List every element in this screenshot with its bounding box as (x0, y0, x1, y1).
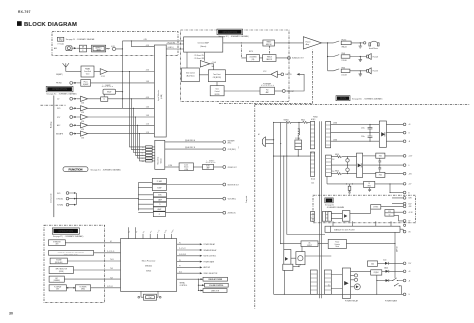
ground (headphone) (359, 43, 363, 48)
mains bus wires (273, 122, 275, 294)
tone direct box (208, 70, 225, 82)
svg-text:L3: L3 (142, 158, 144, 160)
FL driver box (75, 285, 90, 291)
wire composite bus (76, 198, 138, 200)
key box volume (50, 258, 67, 264)
svg-text:F(B)04: F(B)04 (335, 171, 339, 173)
svg-text:OPERATION: OPERATION (58, 230, 73, 233)
svg-text:Phono: Phono (84, 81, 88, 83)
bottom rail (274, 293, 404, 295)
svg-text:Zone2: Zone2 (184, 165, 188, 167)
svg-text:3.3V: 3.3V (388, 211, 391, 213)
processor output mute (177, 255, 200, 257)
reset area wires (281, 243, 301, 245)
SW rectifier box (342, 211, 350, 222)
svg-text:V.SEL: V.SEL (158, 195, 162, 197)
svg-text:OPERATION: OPERATION (222, 31, 237, 34)
SW transformer winding (322, 212, 325, 222)
headphone icon (370, 41, 378, 44)
svg-text:/G902: /G902 (146, 270, 151, 272)
svg-text:-B: -B (408, 141, 410, 143)
svg-text:Diode: Diode (383, 260, 387, 262)
input selector box (154, 45, 166, 137)
svg-text:MUTE CONTROL: MUTE CONTROL (204, 256, 217, 258)
svg-text:PHONO: PHONO (56, 83, 63, 85)
operation dashed box (keys) (44, 225, 105, 302)
caps 15V rails (346, 159, 349, 162)
svg-text:F(B)03: F(B)03 (335, 154, 339, 156)
svg-text:MUTE: MUTE (249, 51, 253, 53)
main B outputs (386, 124, 403, 141)
svg-text:CD Direct AMP: CD Direct AMP (198, 42, 210, 45)
svg-text:+B: +B (408, 124, 410, 126)
svg-text:POWER: POWER (295, 138, 300, 140)
SW outputs (381, 205, 403, 207)
svg-text:IF: IF (82, 50, 83, 52)
svg-text:24V(B): 24V(B) (333, 139, 338, 141)
svg-text:(4.5M): (4.5M) (184, 169, 188, 171)
pre out jack (282, 90, 285, 93)
svg-text:-B: -B (408, 280, 410, 282)
svg-text:1/2 IC1: 1/2 IC1 (101, 76, 106, 78)
svg-text:(REC): (REC) (228, 143, 232, 145)
center 0V (363, 164, 404, 166)
jumper main in to pre out (297, 73, 300, 75)
svg-text:(GRID): (GRID) (81, 289, 86, 291)
gain comparator triangle (200, 61, 210, 68)
wire relay links (104, 92, 122, 97)
svg-text:24V(B): 24V(B) (333, 123, 338, 125)
svg-text:Head Phone: Head Phone (369, 48, 378, 50)
mains top rail with fuses (274, 121, 311, 123)
dashed boundary (41, 104, 67, 106)
processor output speaker relay (177, 249, 200, 251)
svg-text:SP(220): SP(220) (341, 39, 346, 41)
serial target box 3 (198, 290, 203, 292)
front B row (328, 69, 367, 71)
tone control box (210, 86, 224, 96)
CD direct amp box (184, 37, 223, 52)
main bracket dashed (219, 50, 313, 104)
svg-text:FS-23 OM: FS-23 OM (168, 42, 176, 44)
power section dashed boundary (255, 105, 470, 309)
main B+ rectifier rails (331, 124, 380, 141)
wire phono to selector (91, 82, 155, 84)
svg-text:VOLUME: VOLUME (56, 260, 62, 262)
REC A output (165, 141, 223, 143)
svg-text:F(B)01: F(B)01 (301, 119, 305, 121)
svg-text:TL-12,TL-15: TL-12,TL-15 (107, 251, 114, 253)
5V standby reg (350, 209, 371, 213)
transformer secondary windings (324, 121, 331, 294)
svg-text:2200u: 2200u (361, 127, 365, 129)
buffer triangle (main in) (271, 71, 277, 77)
svg-text:VIDEO SELECTOR: VIDEO SELECTOR (204, 273, 219, 275)
svg-text:BLOCK DIAGRAM: BLOCK DIAGRAM (24, 22, 77, 28)
svg-text:ZONE2 (V): ZONE2 (V) (228, 213, 236, 215)
main in jack (281, 73, 284, 76)
loudness row link (240, 45, 242, 58)
serial target box 2 (198, 284, 204, 286)
svg-text:Analog: Analog (50, 122, 53, 128)
key box power (49, 251, 94, 256)
header square (17, 21, 22, 26)
svg-text:5VB: 5VB (408, 198, 411, 200)
svg-text:VOLUME CONTROL: VOLUME CONTROL (209, 285, 223, 287)
primary connections (309, 122, 311, 156)
svg-text:CD: CD (142, 150, 144, 152)
svg-text:4558: 4558 (81, 121, 84, 123)
speaker bus (322, 43, 328, 71)
relay box RY (351, 270, 371, 272)
svg-text:UNIT: UNIT (56, 289, 59, 291)
smoothing caps C(B)01/02 (368, 124, 373, 132)
svg-text:SP(B): SP(B) (341, 67, 345, 69)
svg-text:2200u: 2200u (361, 136, 365, 138)
svg-text:REC: REC (237, 146, 239, 149)
svg-text:Composite: Composite (50, 193, 53, 203)
standby bus box (325, 226, 400, 232)
FM antenna (63, 63, 69, 71)
svg-text:Volume: Volume (184, 167, 189, 169)
svg-text:4558: 4558 (81, 103, 84, 105)
svg-text:See page 31: See page 31 (325, 205, 334, 207)
processor output amp sw (177, 266, 200, 268)
svg-text:RX-797: RX-797 (18, 10, 31, 14)
main rectifier diode box (379, 121, 386, 147)
svg-text:IO-TS 1-5: IO-TS 1-5 (107, 286, 113, 288)
svg-text:P2: P2 (179, 242, 181, 244)
svg-text:CONTROL: CONTROL (180, 285, 188, 287)
tuner IC box (92, 45, 106, 52)
IF box (79, 45, 86, 52)
B line (390, 192, 403, 194)
CD direct relay box (103, 89, 116, 94)
driver transistor boxes (284, 250, 291, 268)
svg-text:ON (M5220): ON (M5220) (213, 77, 222, 79)
svg-text:1/2 IC: 1/2 IC (263, 71, 267, 73)
diode D2 and switch (377, 280, 386, 282)
7815 regulator (363, 155, 376, 157)
wire tuner to selector (107, 71, 154, 73)
svg-text:30: 30 (9, 312, 13, 316)
reg caps (378, 158, 381, 165)
power switch box (295, 140, 302, 150)
svg-text:M5220: M5220 (215, 94, 220, 96)
record input mini boxes (142, 146, 155, 163)
svg-text:VCR(IN): VCR(IN) (57, 205, 63, 207)
pre out row (224, 90, 260, 92)
wire AM to IF (72, 47, 74, 49)
MAIN label (336, 96, 350, 101)
wire FM line to CD direct (123, 40, 184, 42)
processor output power relay (177, 243, 200, 245)
flat amp box (260, 87, 275, 94)
svg-text:MAIN: MAIN (340, 97, 346, 100)
svg-text:TU: TU (142, 147, 144, 149)
bridge rectifier box (357, 153, 363, 177)
front A row (328, 55, 367, 57)
5V regulator box (364, 181, 375, 187)
svg-text:4558: 4558 (81, 137, 84, 139)
OPERATION label (keys) (52, 228, 79, 234)
relay supply row (368, 261, 378, 266)
svg-text:MD: MD (142, 161, 144, 163)
svg-text:UNIT: UNIT (55, 244, 58, 246)
REC B output (165, 148, 223, 150)
transformer core (320, 121, 322, 298)
svg-text:P7: P7 (179, 266, 181, 268)
zone2 output chain (165, 166, 179, 168)
svg-text:2118-GB: 2118-GB (341, 60, 346, 62)
3.3/5V boxes (385, 210, 394, 217)
standby link box (283, 264, 293, 270)
main signal wire (223, 42, 303, 44)
key box input selector (49, 267, 73, 274)
svg-text:TS-10: TS-10 (110, 259, 114, 261)
buffer amp triangle (100, 69, 107, 75)
svg-text:KEY: KEY (55, 278, 58, 280)
mains switch row (274, 155, 311, 157)
wire IF to IC (87, 48, 92, 50)
cap below reg (368, 188, 371, 192)
AC detect box (301, 241, 318, 247)
svg-text:H2: H2 (110, 241, 112, 243)
key box FL display (49, 285, 66, 291)
svg-text:SW(B)01: SW(B)01 (284, 119, 290, 121)
svg-text:Amp: Amp (306, 43, 310, 46)
switch 2 (394, 285, 395, 286)
power detector reset box (328, 239, 346, 248)
resistor to ground (349, 184, 351, 186)
record bundle wires (130, 72, 146, 147)
amp sw wire (394, 232, 396, 278)
selector outputs to CD direct (166, 44, 183, 49)
svg-text:(Stereo): (Stereo) (200, 45, 207, 48)
svg-text:0: 0 (408, 165, 409, 167)
svg-text:LOUDNESS: LOUDNESS (249, 57, 256, 59)
svg-text:FUNCTION: FUNCTION (69, 168, 83, 172)
processor output video selector (177, 272, 200, 274)
svg-text:TL-5,TL-17: TL-5,TL-17 (179, 248, 186, 250)
svg-text:TU: TU (59, 38, 63, 41)
svg-text:7915: 7915 (379, 175, 383, 177)
svg-text:Micro Processor: Micro Processor (142, 260, 156, 263)
relay caps (351, 275, 355, 279)
subwoofer out jack (288, 57, 291, 60)
svg-text:CDR (REC): CDR (REC) (228, 149, 237, 151)
mute control box (182, 68, 200, 82)
svg-text:(KNOB): (KNOB) (59, 271, 64, 273)
transformer primary windings (310, 121, 317, 294)
loudness box (241, 57, 287, 59)
serial bus wire (177, 279, 199, 290)
svg-text:L2: L2 (142, 155, 144, 157)
speaker icon B (367, 69, 369, 72)
processor top pins (129, 234, 172, 239)
OPERATION label (analog in) (46, 86, 73, 91)
selector top input from TU (131, 41, 154, 47)
svg-text:RY(B)01: RY(B)01 (374, 272, 379, 274)
svg-text:15V: 15V (332, 159, 334, 161)
svg-text:TREBLE: TREBLE (266, 42, 271, 44)
svg-text:P6: P6 (179, 260, 181, 262)
svg-text:VCR (REC): VCR (REC) (228, 198, 237, 200)
CD direct series box (101, 97, 108, 101)
svg-text:DIRECTOR: DIRECTOR (211, 290, 220, 292)
svg-text:V.T mode: V.T mode (57, 43, 64, 45)
power relay rectifier (342, 268, 350, 298)
svg-text:OPERATION: OPERATION (52, 88, 67, 91)
AC plug (262, 140, 266, 144)
video group zone2 (138, 209, 153, 213)
arrow into IF (74, 47, 77, 49)
svg-text:L1: L1 (142, 152, 144, 154)
svg-text:DETECT: DETECT (307, 245, 312, 247)
svg-text:ZONE2 OUT: ZONE2 OUT (228, 167, 237, 169)
SW dashed box (313, 195, 416, 223)
SW label (325, 198, 333, 203)
svg-text:TS-9: TS-9 (110, 277, 113, 279)
main in row (225, 73, 271, 75)
svg-text:REG: REG (368, 186, 371, 188)
svg-text:D(B)02: D(B)02 (384, 268, 388, 270)
svg-text:M30622: M30622 (145, 266, 152, 268)
svg-text:PRE OUT: PRE OUT (287, 91, 294, 93)
svg-text:B: B (408, 192, 409, 194)
svg-text:DTV/CBL: DTV/CBL (57, 198, 64, 200)
headphone row (328, 41, 361, 43)
svg-text:(4.5M): (4.5M) (161, 94, 163, 99)
svg-text:5V REG: 5V REG (373, 207, 378, 209)
svg-text:TREBLE: TREBLE (267, 57, 272, 59)
record out selector box (155, 140, 165, 169)
svg-text:5V: 5V (368, 183, 370, 185)
diode D1 (382, 270, 386, 272)
svg-text:(DIMMER): (DIMMER) (54, 280, 61, 282)
svg-text:4558: 4558 (81, 112, 84, 114)
7915 regulator (363, 173, 376, 175)
svg-text:+B8: +B8 (408, 206, 411, 208)
serial target box 1 (198, 278, 203, 280)
svg-text:+B: +B (408, 271, 410, 273)
+-15V rectifier rails (331, 157, 356, 174)
svg-text:POWER SAVE: POWER SAVE (385, 299, 398, 302)
svg-text:MONITOR OUT: MONITOR OUT (228, 184, 239, 186)
TU dashed box (52, 32, 178, 56)
treble bass box 2 (263, 55, 276, 62)
primary coil (298, 122, 300, 128)
SW stubs to bus (333, 221, 391, 226)
processor output power save (177, 261, 200, 263)
operation dashed box (pre/tone) (181, 30, 290, 101)
video group VCR rec (138, 195, 153, 204)
processor bottom pins and crystal (141, 291, 158, 297)
svg-text:Tone: Tone (215, 89, 218, 91)
video group monitor (138, 183, 152, 188)
FUNCTION label (63, 167, 88, 172)
micro processor box (121, 239, 177, 292)
svg-text:7815: 7815 (379, 156, 383, 158)
OPERATION label (pre) (217, 29, 243, 34)
wire antenna to front end (66, 71, 81, 73)
svg-text:Input Selector: Input Selector (157, 90, 160, 101)
wire front end to buffer (94, 71, 100, 73)
phono EQ box (81, 80, 91, 87)
front end tuner box (81, 66, 94, 77)
TU label (57, 37, 63, 41)
speaker icon A (367, 55, 369, 58)
key box dimmer (49, 276, 64, 282)
svg-text:INPUT SELECTOR: INPUT SELECTOR (56, 269, 67, 271)
relay coil circle (354, 284, 360, 290)
svg-text:FL DRIVER: FL DRIVER (80, 287, 87, 289)
svg-text:22V: 22V (329, 284, 331, 286)
svg-text:SL-05,09,01: SL-05,09,01 (179, 254, 186, 256)
power amp triangle (303, 37, 321, 49)
svg-text:PT(B)01: PT(B)01 (313, 117, 318, 119)
key box IR (49, 240, 66, 246)
wire TU output (106, 41, 123, 72)
treble bass box 1 (263, 40, 275, 46)
analog input LINE rows (57, 106, 154, 114)
svg-text:IR RECEIVE: IR RECEIVE (53, 241, 60, 243)
svg-text:Power: Power (306, 40, 311, 43)
svg-text:4558: 4558 (81, 129, 84, 131)
svg-text:TS-8: TS-8 (110, 268, 113, 270)
svg-text:POWER RELAY: POWER RELAY (345, 299, 359, 302)
left bus line (53, 96, 55, 218)
svg-text:5V: 5V (389, 214, 391, 216)
svg-text:2101-GB: 2101-GB (341, 74, 346, 76)
